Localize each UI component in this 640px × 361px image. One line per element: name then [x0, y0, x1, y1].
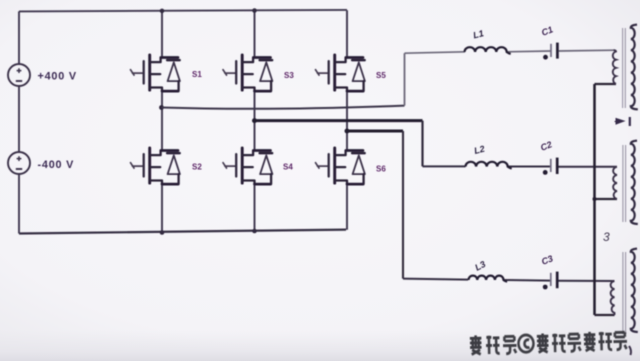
svg-text:+400 V: +400 V [38, 71, 77, 83]
wire: neutral bus vertical [593, 84, 596, 315]
wire: T3 primary return [595, 314, 615, 316]
wire: phase B horizontal (bold) [255, 119, 423, 122]
wire: top rail [19, 10, 347, 12]
wire: filter line 1 [405, 50, 614, 53]
transistor S1 [131, 55, 180, 91]
transistor S2 [131, 148, 180, 184]
svg-text:-400 V: -400 V [38, 159, 75, 171]
transistor S6 [316, 148, 365, 184]
wire: leg 2 vertical segments [254, 11, 256, 232]
inductor L2 [466, 162, 512, 169]
svg-text:S5: S5 [376, 71, 386, 80]
wire: leg 3 vertical segments [346, 10, 348, 230]
label T3 [629, 346, 631, 355]
wire: left bus middle [18, 86, 20, 152]
svg-text:S2: S2 [192, 163, 202, 172]
wire: phase B riser [421, 121, 423, 167]
wire: phase C horizontal (bold) [347, 130, 403, 133]
voltage source V2 -400V [8, 152, 30, 174]
wire: phase C riser [402, 131, 404, 279]
wire: phase A horizontal [162, 106, 405, 109]
svg-text:S4: S4 [283, 163, 293, 172]
junction bottom rail leg1 [160, 230, 165, 235]
capacitor C1 [550, 44, 552, 57]
transistor S3 [223, 55, 272, 91]
svg-text:3: 3 [603, 230, 610, 244]
transistor S5 [316, 55, 365, 91]
capacitor C2 [550, 159, 552, 172]
wire: leg 1 vertical segments [161, 11, 163, 233]
wire: bottom rail [19, 230, 346, 234]
junction neutral T2 [593, 197, 597, 201]
wire: left bus lower [18, 174, 20, 234]
node phase B junction [252, 118, 257, 123]
capacitor C3 [550, 273, 552, 286]
wire: phase A riser [404, 53, 406, 105]
watermark 搜狐号@电子工程世界 [470, 331, 627, 354]
wire: filter line 2 [423, 165, 618, 167]
inductor L3 [469, 276, 508, 282]
transistor S4 [223, 148, 272, 184]
junction top rail leg1 [160, 9, 165, 14]
wire: T1 primary return [595, 83, 617, 85]
svg-text:S3: S3 [284, 71, 294, 80]
junction top rail leg2 [252, 8, 257, 13]
label T1 [615, 117, 630, 126]
junction bottom rail leg2 [252, 229, 257, 234]
svg-text:S6: S6 [376, 165, 386, 174]
transformer T3 [611, 281, 615, 315]
voltage source V1 +400V [8, 64, 30, 86]
svg-text:S1: S1 [192, 70, 202, 79]
inductor L1 [465, 47, 511, 54]
node phase A junction [159, 105, 164, 110]
transformer T1 [613, 50, 616, 84]
transformer T2 [613, 167, 617, 199]
node phase C junction [345, 129, 350, 134]
wire: filter line 3 [403, 279, 615, 281]
wire: T2 primary return [595, 198, 618, 200]
wire: left bus upper [18, 11, 20, 64]
